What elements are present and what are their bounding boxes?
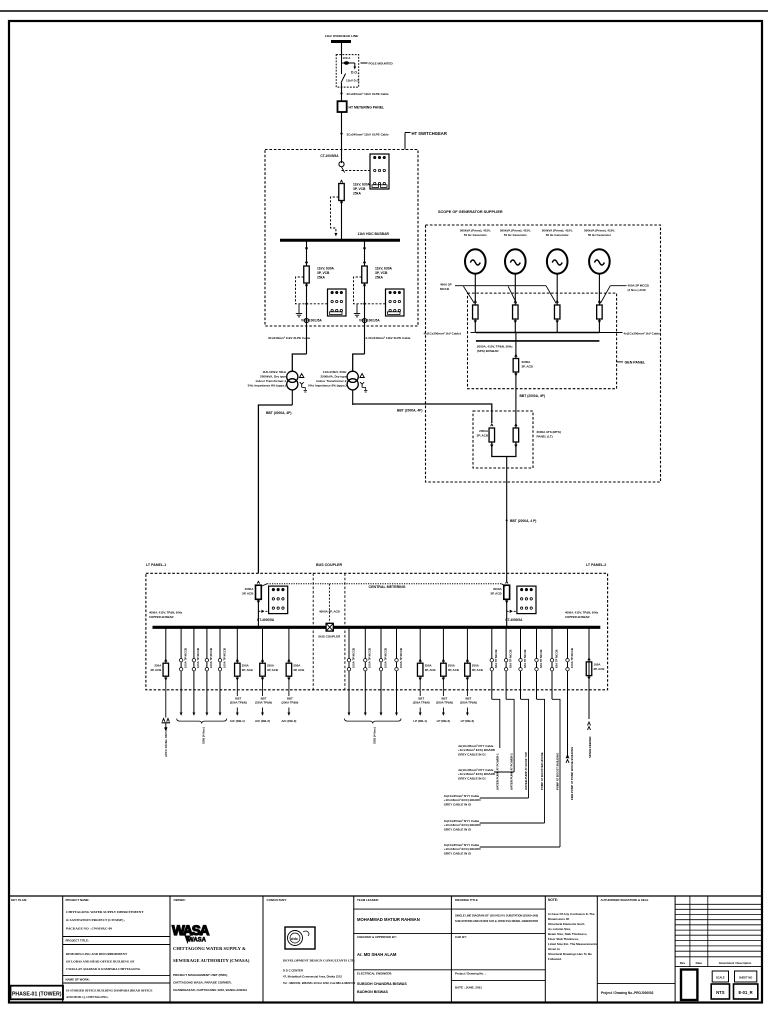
node cable junction bbox=[340, 92, 342, 94]
relay R2 protection relay bbox=[328, 289, 347, 316]
svg-text:(SPS) BUSBAR: (SPS) BUSBAR bbox=[477, 349, 500, 353]
svg-text:NTS: NTS bbox=[716, 990, 725, 995]
label transformer T2 delta winding bbox=[360, 374, 364, 378]
svg-text:3P, ACB: 3P, ACB bbox=[242, 591, 254, 595]
svg-text:(250A TP&N): (250A TP&N) bbox=[460, 701, 477, 705]
wire gen panel outgoing bbox=[515, 372, 517, 428]
svg-text:500kVA (Prime), 415V,: 500kVA (Prime), 415V, bbox=[460, 229, 491, 233]
svg-text:4x(1Cx300mm² 1kV Cable): 4x(1Cx300mm² 1kV Cable) bbox=[424, 331, 461, 335]
svg-text:100A TP MCCB: 100A TP MCCB bbox=[368, 648, 372, 668]
label transformer T1 delta winding bbox=[300, 374, 304, 378]
wire feeder 2 exit bbox=[364, 283, 366, 354]
svg-text:GREY CABLE IN GI: GREY CABLE IN GI bbox=[444, 803, 472, 807]
svg-text:GREY CABLE IN GI: GREY CABLE IN GI bbox=[458, 777, 486, 781]
svg-text:E-01_R: E-01_R bbox=[738, 990, 752, 995]
svg-text:Floor Slab Thickness,: Floor Slab Thickness, bbox=[548, 937, 579, 941]
label GEN PANEL callout bbox=[617, 361, 623, 363]
svg-text:BADHON BISWAS: BADHON BISWAS bbox=[357, 990, 389, 994]
svg-text:CAD BY:: CAD BY: bbox=[455, 935, 467, 939]
wire pump 1 elbow bbox=[492, 699, 500, 748]
svg-text:25kA: 25kA bbox=[317, 276, 326, 280]
svg-text:2000A: 2000A bbox=[479, 429, 489, 433]
svg-text:HT SWITCHGEAR: HT SWITCHGEAR bbox=[412, 131, 447, 136]
wire VCB2 interlock dashed bbox=[296, 277, 328, 304]
wire T2 secondary to changeover bbox=[353, 404, 492, 423]
feeder ACB 250A bbox=[419, 627, 421, 663]
svg-text:5%± Impedance 6% (appx.): 5%± Impedance 6% (appx.) bbox=[308, 384, 346, 388]
svg-text:WASA: WASA bbox=[188, 938, 207, 944]
feeder 100A TP MCCB disconnect bbox=[206, 627, 208, 712]
svg-text:GREY CABLE IN GI: GREY CABLE IN GI bbox=[444, 828, 472, 832]
feeder fire pump disconnect bbox=[567, 627, 569, 758]
svg-text:LP (DB-3): LP (DB-3) bbox=[461, 719, 475, 723]
svg-text:MOHAMMAD MATIUR RAHMAN: MOHAMMAD MATIUR RAHMAN bbox=[357, 917, 420, 922]
svg-text:POLE MOUNTED: POLE MOUNTED bbox=[369, 62, 394, 66]
svg-text:10-STORIED OFFICE BUILDING DAM: 10-STORIED OFFICE BUILDING DAMPARA (HEAD… bbox=[66, 989, 152, 993]
wire inside DO box bbox=[341, 55, 343, 74]
svg-text:BUS COUPLER: BUS COUPLER bbox=[318, 635, 341, 639]
generator G3 bbox=[547, 249, 568, 273]
feeder ACB 250A bbox=[236, 627, 238, 663]
breaker LT incomer ACB-2 4000A bbox=[504, 585, 510, 599]
svg-text:ddc: ddc bbox=[291, 936, 299, 941]
svg-text:BBT (4000A, 4P): BBT (4000A, 4P) bbox=[266, 411, 291, 415]
svg-text:SCALE: SCALE bbox=[716, 975, 725, 979]
wire pump 4 elbow bbox=[537, 699, 545, 823]
wire LT incomer 2 to bus bbox=[506, 599, 508, 627]
svg-text:Project / Drawing No.-PROJ0000: Project / Drawing No.-PROJ000002 bbox=[601, 991, 654, 995]
breaker GCB4 bbox=[597, 305, 603, 319]
svg-text:TEAM LEADER:: TEAM LEADER: bbox=[357, 898, 379, 902]
relay R1 protection relay bbox=[370, 154, 389, 189]
svg-text:(250A TP&N): (250A TP&N) bbox=[436, 701, 453, 705]
svg-text:Given In: Given In bbox=[548, 947, 560, 951]
svg-text:100A TP MCCB: 100A TP MCCB bbox=[196, 648, 200, 668]
LT panel section divider right bbox=[344, 573, 346, 690]
svg-text:REMODELLING AND REFURBISHMENT: REMODELLING AND REFURBISHMENT bbox=[66, 952, 128, 956]
svg-text:Lintel Size Etc. The Measureme: Lintel Size Etc. The Measurements bbox=[548, 942, 598, 946]
relay LT incomer R1 bbox=[269, 586, 288, 614]
breaker LT incomer ACB-1 4000A bbox=[256, 585, 262, 599]
svg-text:3P, ACB: 3P, ACB bbox=[472, 668, 483, 672]
svg-text:CONSULTANT:: CONSULTANT: bbox=[267, 898, 287, 902]
svg-text:11kV, 630A: 11kV, 630A bbox=[317, 267, 335, 271]
svg-text:BUS COUPLER: BUS COUPLER bbox=[316, 563, 343, 567]
svg-text:COPPER BUSBAR: COPPER BUSBAR bbox=[565, 615, 590, 619]
svg-text:3P, ACB: 3P, ACB bbox=[425, 668, 436, 672]
ground feeder 1 bbox=[298, 304, 300, 311]
svg-text:SUB-STATION AND 2X1000 KVA & 1: SUB-STATION AND 2X1000 KVA & 1X500 KVA D… bbox=[455, 919, 538, 923]
svg-text:BBT (2000A, 4P): BBT (2000A, 4P) bbox=[397, 409, 422, 413]
svg-text:DATE : JUNE, 2021: DATE : JUNE, 2021 bbox=[455, 986, 482, 990]
svg-text:4000A: 4000A bbox=[245, 587, 255, 591]
svg-text:COPPER BUSBAR: COPPER BUSBAR bbox=[149, 615, 174, 619]
wire pump 5 elbow bbox=[552, 699, 560, 847]
svg-text:(250A TP&N): (250A TP&N) bbox=[413, 701, 430, 705]
svg-text:25kA: 25kA bbox=[375, 276, 384, 280]
feeder ACB 250A bbox=[442, 627, 444, 663]
svg-text:3P, ACB: 3P, ACB bbox=[150, 668, 161, 672]
bus coupler dashed drop bbox=[328, 584, 330, 623]
svg-text:63A TP MCCB: 63A TP MCCB bbox=[494, 650, 498, 669]
svg-text:SHEET NO: SHEET NO bbox=[739, 975, 752, 979]
svg-text:PROJECT TITLE:: PROJECT TITLE: bbox=[66, 939, 89, 943]
wire VCB3 interlock dashed bbox=[354, 277, 386, 304]
title block top line bbox=[9, 895, 762, 897]
wire transformer T2 secondary bbox=[352, 390, 354, 405]
svg-text:(250A TP&N): (250A TP&N) bbox=[281, 701, 298, 705]
breaker VCB3 outgoing 11kV 630A bbox=[362, 266, 368, 283]
svg-text:11kV HDC BUSBAR: 11kV HDC BUSBAR bbox=[358, 232, 390, 236]
svg-text:BBT (2000A, 4P): BBT (2000A, 4P) bbox=[520, 394, 545, 398]
svg-text:2500kVA, Dry type: 2500kVA, Dry type bbox=[260, 375, 286, 379]
svg-text:11kV D.O.: 11kV D.O. bbox=[346, 79, 360, 83]
svg-text:PUMP AT BOOST BUILDING: PUMP AT BOOST BUILDING bbox=[556, 753, 560, 790]
transformer T2 bbox=[347, 371, 358, 382]
svg-text:LP (DB-1): LP (DB-1) bbox=[413, 719, 427, 723]
wire generator G4 lead bbox=[598, 274, 600, 305]
svg-text:63A TP MCCB: 63A TP MCCB bbox=[554, 650, 558, 669]
svg-text:SDB (4 Nos): SDB (4 Nos) bbox=[372, 727, 376, 744]
svg-text:3P, ACB: 3P, ACB bbox=[242, 668, 253, 672]
brace SDB group right bbox=[345, 719, 402, 724]
feeder ACB 250A bbox=[288, 627, 290, 663]
feeder 100A TP MCCB disconnect bbox=[396, 627, 398, 712]
svg-text:2000A ATS (MTS): 2000A ATS (MTS) bbox=[537, 430, 561, 434]
svg-text:11kV, 630A: 11kV, 630A bbox=[353, 183, 371, 187]
svg-text:indoor Transformer-1: indoor Transformer-1 bbox=[256, 379, 287, 383]
svg-text:4000A: 4000A bbox=[493, 587, 503, 591]
svg-text:2000A: 2000A bbox=[522, 360, 532, 364]
breaker bus coupler bbox=[326, 623, 333, 631]
svg-text:PUMP AT BOOSTER HOUSE: PUMP AT BOOSTER HOUSE bbox=[540, 752, 544, 790]
seal box bbox=[681, 970, 697, 1001]
svg-text:100 A: 100 A bbox=[343, 56, 352, 60]
svg-text:CT-4000/5A: CT-4000/5A bbox=[505, 618, 523, 622]
feeder 100A TP MCCB disconnect bbox=[348, 627, 350, 712]
svg-text:DRAWING TITLE: DRAWING TITLE bbox=[455, 898, 478, 902]
svg-text:SEWERAGE AUTHORITY (CWASA): SEWERAGE AUTHORITY (CWASA) bbox=[173, 958, 250, 963]
HT switchgear enclosure bbox=[265, 150, 418, 327]
wire generator G1 lead bbox=[474, 274, 476, 305]
svg-text:2-3Cx240mm² 11kV XLPE Cable: 2-3Cx240mm² 11kV XLPE Cable bbox=[366, 336, 411, 340]
svg-text:3P, ACB: 3P, ACB bbox=[594, 667, 605, 671]
name of work rule bbox=[63, 975, 170, 977]
svg-text:63A TP MCCB: 63A TP MCCB bbox=[539, 650, 543, 669]
svg-text:SINGLE LINE DIAGRAM OF 11KV/41: SINGLE LINE DIAGRAM OF 11KV/415 KV SUBST… bbox=[455, 914, 538, 918]
svg-text:4x(1Cx35mm² NYY Cable: 4x(1Cx35mm² NYY Cable bbox=[444, 843, 480, 847]
label pole mounted leader bbox=[361, 62, 368, 64]
wire generator G3 lead bbox=[556, 274, 558, 305]
wire transformer T1 secondary bbox=[291, 390, 293, 405]
svg-text:400A 3P: 400A 3P bbox=[440, 283, 452, 287]
bus 11kV busbar bbox=[280, 239, 400, 242]
svg-text:APFC PANEL 50KVAR: APFC PANEL 50KVAR bbox=[164, 726, 168, 757]
fuse F1 DO fuse bbox=[342, 62, 355, 64]
transformer T1 bbox=[287, 371, 298, 382]
breaker VCB1 incomer 11kV 630A bbox=[339, 184, 345, 201]
svg-text:2000A, 415V, TP&N, 50Hz: 2000A, 415V, TP&N, 50Hz bbox=[477, 345, 513, 349]
svg-text:PACKAGE NO : CWSISP,C-09: PACKAGE NO : CWSISP,C-09 bbox=[66, 926, 112, 930]
svg-text:CT-4000/5A: CT-4000/5A bbox=[257, 618, 275, 622]
breaker GCB1 bbox=[473, 305, 479, 319]
wire feeder to transformer T2 bbox=[353, 354, 365, 371]
svg-text:CHECKED & APPROVED BY:: CHECKED & APPROVED BY: bbox=[357, 935, 397, 939]
sheet no box bbox=[735, 971, 757, 982]
generator G4 bbox=[589, 249, 610, 273]
svg-text:4x(1Cx35mm² NYY Cable: 4x(1Cx35mm² NYY Cable bbox=[458, 768, 494, 772]
svg-text:CHITTAGONG WATER SUPPLY IMPROV: CHITTAGONG WATER SUPPLY IMPROVEMENT bbox=[66, 910, 144, 914]
svg-text:+1Cx16mm² ECC) BOARD: +1Cx16mm² ECC) BOARD bbox=[444, 798, 482, 802]
svg-text:Amendment / Description: Amendment / Description bbox=[719, 961, 752, 965]
wire feeder 1 exit bbox=[306, 283, 308, 354]
svg-text:GREY CABLE IN GI: GREY CABLE IN GI bbox=[444, 852, 472, 856]
wire GCB1 to gen bus bbox=[474, 319, 476, 333]
svg-text:FIRE PUMP AT PUMP HOUSE BUILDI: FIRE PUMP AT PUMP HOUSE BUILDING bbox=[570, 747, 574, 800]
wire GCB4 to gen bus bbox=[598, 319, 600, 333]
svg-text:100A TP MCCB: 100A TP MCCB bbox=[399, 648, 403, 668]
svg-text:3P, ACB: 3P, ACB bbox=[490, 591, 502, 595]
svg-text:KEY PLAN:: KEY PLAN: bbox=[11, 898, 27, 902]
svg-text:WATER PUMP AT POWER-1: WATER PUMP AT POWER-1 bbox=[495, 753, 499, 790]
feeder 100A TP MCCB disconnect bbox=[380, 627, 382, 712]
feeder pump 5 disconnect bbox=[551, 627, 553, 699]
bus 11kV overhead stub bbox=[331, 40, 351, 43]
svg-text:SCOPE OF GENERATOR SUPPLIER: SCOPE OF GENERATOR SUPPLIER bbox=[438, 210, 503, 214]
svg-text:HT METERING PANEL: HT METERING PANEL bbox=[349, 106, 385, 110]
HT metering panel bbox=[338, 101, 347, 112]
feeder ACB 250A bbox=[165, 627, 167, 663]
wire metering to switchgear bbox=[341, 112, 343, 163]
svg-text:PHASE-01 (TOWER): PHASE-01 (TOWER) bbox=[12, 992, 62, 998]
label transformer T2 wye winding bbox=[360, 382, 364, 387]
svg-text:Structural Drawings Has To Be: Structural Drawings Has To Be bbox=[548, 952, 592, 956]
title block columns bbox=[62, 896, 64, 1002]
svg-text:NAME OF WORK:: NAME OF WORK: bbox=[66, 977, 90, 981]
wire GCB2 to gen bus bbox=[514, 319, 516, 333]
feeder 100A TP MCCB disconnect bbox=[180, 627, 182, 712]
svg-text:BBT (2000A, 4 P): BBT (2000A, 4 P) bbox=[510, 519, 536, 523]
svg-text:MCCB: MCCB bbox=[440, 287, 450, 291]
breaker VCB2 outgoing 11kV 630A bbox=[304, 266, 310, 283]
generator panel enclosure bbox=[468, 293, 617, 389]
svg-text:100A TP MCCB: 100A TP MCCB bbox=[383, 648, 387, 668]
label transformer T1 wye winding bbox=[300, 382, 304, 387]
label 11kV cable 2 bbox=[340, 133, 342, 135]
svg-text:3P, ACB: 3P, ACB bbox=[267, 668, 278, 672]
svg-text:LT PANEL-2: LT PANEL-2 bbox=[586, 563, 606, 567]
svg-text:50 Hz Generator: 50 Hz Generator bbox=[588, 233, 612, 237]
DDC logo bbox=[285, 927, 315, 949]
svg-text:WATER PUMP AT POWER-2: WATER PUMP AT POWER-2 bbox=[510, 753, 514, 790]
svg-text:Project / Drawing No. :: Project / Drawing No. : bbox=[455, 972, 486, 976]
ground feeder 2 bbox=[356, 304, 358, 311]
relay LT incomer R2 bbox=[517, 586, 536, 614]
svg-text:(4 Nos.) ACB: (4 Nos.) ACB bbox=[628, 288, 647, 292]
svg-text:WATER PUMP AT ROOF TOP: WATER PUMP AT ROOF TOP bbox=[524, 752, 528, 790]
svg-text:(250A TP&N): (250A TP&N) bbox=[230, 701, 247, 705]
feeder 100A TP MCCB disconnect bbox=[219, 627, 221, 712]
svg-text:ELECTRICAL ENGINEER:: ELECTRICAL ENGINEER: bbox=[357, 972, 392, 976]
bus LT main busbar bbox=[153, 626, 601, 629]
wire pump 3 elbow bbox=[521, 699, 529, 798]
changeover ATS enclosure bbox=[473, 411, 533, 468]
svg-text:SDB (4 Nos): SDB (4 Nos) bbox=[202, 727, 206, 744]
svg-text:(250A TP&N): (250A TP&N) bbox=[255, 701, 272, 705]
feeder spare ACB bbox=[588, 627, 590, 719]
svg-text:+1Cx16mm² ECC) BOARD: +1Cx16mm² ECC) BOARD bbox=[444, 823, 482, 827]
generator G2 bbox=[505, 249, 526, 273]
svg-text:CENTRAL METERING: CENTRAL METERING bbox=[369, 585, 406, 589]
svg-text:3P, ACB: 3P, ACB bbox=[522, 364, 534, 368]
svg-text:indoor Transformer-2: indoor Transformer-2 bbox=[316, 379, 347, 383]
wire DO box exit bbox=[341, 83, 343, 101]
svg-text:SUBODH CHANDRA BISWAS: SUBODH CHANDRA BISWAS bbox=[357, 982, 407, 986]
CT LT incomer 2 bbox=[507, 610, 517, 612]
svg-text:11/0.415kV, 50Hz: 11/0.415kV, 50Hz bbox=[262, 370, 286, 374]
svg-text:3Cx240mm² 11kV XLPE Cable: 3Cx240mm² 11kV XLPE Cable bbox=[347, 92, 390, 96]
svg-text:63A TP MCCB: 63A TP MCCB bbox=[523, 650, 527, 669]
LT panel enclosure bbox=[146, 573, 608, 690]
relay R3 protection relay bbox=[386, 289, 405, 316]
svg-text:A/C (DB-2): A/C (DB-2) bbox=[255, 719, 270, 723]
svg-text:Beam Size, Slab Thickness,: Beam Size, Slab Thickness, bbox=[548, 932, 588, 936]
svg-text:5%± Impedance 6% (appx.): 5%± Impedance 6% (appx.) bbox=[248, 384, 286, 388]
breaker ATS gen ACB bbox=[513, 428, 519, 442]
svg-text:100A TP MCCB: 100A TP MCCB bbox=[183, 648, 187, 668]
border top rule bbox=[0, 10, 768, 12]
svg-text:50 Hz Generator: 50 Hz Generator bbox=[504, 233, 528, 237]
svg-text:500kVA (Prime), 415V,: 500kVA (Prime), 415V, bbox=[500, 229, 531, 233]
svg-text:400A 3P MCCB: 400A 3P MCCB bbox=[628, 284, 650, 288]
svg-text:50 Hz Generator: 50 Hz Generator bbox=[546, 233, 570, 237]
svg-text:DEVELOPMENT DESIGN CONSULTANTS: DEVELOPMENT DESIGN CONSULTANTS LTD. bbox=[283, 959, 356, 963]
CT LT incomer 1 bbox=[258, 610, 268, 612]
svg-text:SPARE FEEDER: SPARE FEEDER bbox=[588, 736, 592, 758]
key plan phase box bbox=[11, 986, 64, 1000]
svg-text:CHITTAGONG WASA, PARADE CORNER: CHITTAGONG WASA, PARADE CORNER, bbox=[173, 980, 232, 984]
svg-text:NOTE:: NOTE: bbox=[548, 898, 558, 902]
svg-text:3P, ACB: 3P, ACB bbox=[448, 668, 459, 672]
svg-text:4x(1Cx300mm² 1kV Cable): 4x(1Cx300mm² 1kV Cable) bbox=[624, 331, 661, 335]
wire feeder 2 from 11kV bus bbox=[364, 240, 366, 266]
svg-text:4x(1Cx35mm² NYY Cable: 4x(1Cx35mm² NYY Cable bbox=[444, 819, 480, 823]
brace SDB group left bbox=[177, 719, 227, 724]
revision table rules bbox=[675, 903, 762, 905]
capacitor bank APFC bbox=[162, 719, 165, 722]
svg-text:50 Hz Generator: 50 Hz Generator bbox=[464, 233, 488, 237]
svg-text:25kA: 25kA bbox=[353, 192, 362, 196]
svg-text:GEN PANEL: GEN PANEL bbox=[625, 361, 647, 365]
svg-text:4x(1Cx35mm² NYY Cable: 4x(1Cx35mm² NYY Cable bbox=[444, 794, 480, 798]
svg-text:3P, ACB: 3P, ACB bbox=[477, 433, 489, 437]
svg-text:4000A 4P, ACB: 4000A 4P, ACB bbox=[319, 610, 341, 614]
svg-text:OWNER:: OWNER: bbox=[174, 898, 186, 902]
svg-text:PROJECT NAME:: PROJECT NAME: bbox=[66, 898, 90, 902]
svg-text:63A TP MCCB: 63A TP MCCB bbox=[508, 650, 512, 669]
svg-text:AUTHORISED SIGNATURE & SEAL: AUTHORISED SIGNATURE & SEAL bbox=[601, 898, 649, 902]
svg-text:OF LOBAS AND HEAD OFFICE BUILD: OF LOBAS AND HEAD OFFICE BUILDING OF bbox=[66, 960, 134, 964]
svg-text:WASA: WASA bbox=[172, 923, 210, 938]
svg-text:AND MOD-1), CHITTAGONG.: AND MOD-1), CHITTAGONG. bbox=[66, 995, 109, 999]
svg-text:A/C (DB-3): A/C (DB-3) bbox=[281, 719, 296, 723]
svg-text:100A TP MCCB: 100A TP MCCB bbox=[209, 648, 213, 668]
project title rule bbox=[63, 936, 170, 938]
svg-text:4x(1Cx35mm² NYY Cable: 4x(1Cx35mm² NYY Cable bbox=[458, 744, 494, 748]
svg-text:11kV, 630A: 11kV, 630A bbox=[375, 267, 393, 271]
wire VCB1 to busbar bbox=[341, 201, 343, 241]
svg-text:500kVA (Prime), 415V,: 500kVA (Prime), 415V, bbox=[542, 229, 573, 233]
generator supplier scope enclosure bbox=[426, 225, 661, 482]
feeder pump 1 disconnect bbox=[491, 627, 493, 699]
svg-text:LT PANEL-1: LT PANEL-1 bbox=[146, 563, 166, 567]
svg-text:3P, ACB: 3P, ACB bbox=[293, 668, 304, 672]
label HT switchgear callout bbox=[405, 132, 411, 134]
wire incoming service drop bbox=[341, 42, 343, 55]
svg-text:& SANITATION PROJECT (CWSISP): & SANITATION PROJECT (CWSISP) , bbox=[66, 918, 125, 922]
svg-text:3P, VCB: 3P, VCB bbox=[375, 271, 388, 275]
svg-text:As column Size,: As column Size, bbox=[548, 927, 571, 931]
scale box bbox=[712, 971, 728, 982]
feeder pump 3 disconnect bbox=[520, 627, 522, 699]
svg-text:Tel : 9821500, 9861531-40 Ext: Tel : 9821500, 9861531-40 Ext 1202, Fax:… bbox=[283, 981, 356, 985]
pole mounted DO fuse enclosure bbox=[336, 55, 359, 88]
svg-text:2500kVA, Dry type: 2500kVA, Dry type bbox=[321, 375, 347, 379]
wire generator G2 lead bbox=[514, 274, 516, 305]
wire LT incomer 1 to bus bbox=[257, 599, 259, 627]
feeder 100A TP MCCB disconnect bbox=[193, 627, 195, 712]
svg-text:11kV OVERHEAD LINE: 11kV OVERHEAD LINE bbox=[325, 34, 358, 38]
wire T1 secondary riser to LT panel bbox=[258, 405, 292, 573]
breaker ATS mains ACB bbox=[489, 428, 495, 442]
feeder pump 2 disconnect bbox=[505, 627, 507, 699]
switch SW1 disconnect blade bbox=[341, 74, 346, 83]
svg-text:Followed.: Followed. bbox=[548, 957, 562, 961]
wire pump 2 elbow bbox=[506, 699, 514, 772]
LT panel section divider left bbox=[312, 573, 314, 690]
svg-text:CT-100/5/5A: CT-100/5/5A bbox=[320, 154, 339, 158]
svg-text:In Case Of Any Confusion In Th: In Case Of Any Confusion In The bbox=[548, 912, 595, 916]
svg-text:Ar. MD SHAH ALAM: Ar. MD SHAH ALAM bbox=[357, 952, 397, 957]
breaker GCB3 bbox=[554, 305, 560, 319]
svg-text:PROJECT MANAGEMENT UNIT (PMU),: PROJECT MANAGEMENT UNIT (PMU), bbox=[173, 973, 228, 977]
svg-text:CHAWKBAZAR, CHITTAGONG 4203, B: CHAWKBAZAR, CHITTAGONG 4203, BANGLADESH bbox=[173, 988, 247, 992]
svg-text:100A TP MCCB: 100A TP MCCB bbox=[570, 648, 574, 668]
svg-text:11/0.415kV, 50Hz: 11/0.415kV, 50Hz bbox=[323, 370, 347, 374]
svg-text:500kVA (Prime), 415V,: 500kVA (Prime), 415V, bbox=[584, 229, 615, 233]
breaker gen outgoing ACB 2000A bbox=[513, 359, 519, 373]
generator G1 bbox=[465, 249, 486, 273]
svg-text:D.O.: D.O. bbox=[351, 71, 358, 75]
wire feeder to transformer T1 bbox=[292, 354, 306, 371]
svg-text:Dimensions Of: Dimensions Of bbox=[548, 917, 569, 921]
feeder 100A TP MCCB disconnect bbox=[364, 627, 366, 712]
wire CT to relay dashed bbox=[342, 170, 371, 172]
wire GCB3 to gen bus bbox=[556, 319, 558, 333]
svg-text:+1Cx16mm² ECC) BOARD: +1Cx16mm² ECC) BOARD bbox=[458, 772, 496, 776]
CT1 current transformer bbox=[339, 162, 344, 167]
svg-text:D D C CENTER: D D C CENTER bbox=[283, 969, 303, 973]
svg-text:A/C (DB-1): A/C (DB-1) bbox=[230, 719, 245, 723]
svg-text:3Cx240mm² 11kV XLPE Cable: 3Cx240mm² 11kV XLPE Cable bbox=[347, 133, 390, 137]
feeder ACB 250A bbox=[262, 627, 264, 663]
svg-text:PANEL (LT): PANEL (LT) bbox=[537, 434, 553, 438]
bus generator paralleling busbar bbox=[476, 332, 600, 334]
breaker GCB2 bbox=[513, 305, 519, 319]
wire ATS output riser bbox=[506, 457, 508, 582]
svg-text:Structural Elements Such: Structural Elements Such bbox=[548, 922, 585, 926]
svg-text:+1Cx16mm² ECC) BOARD: +1Cx16mm² ECC) BOARD bbox=[444, 847, 482, 851]
